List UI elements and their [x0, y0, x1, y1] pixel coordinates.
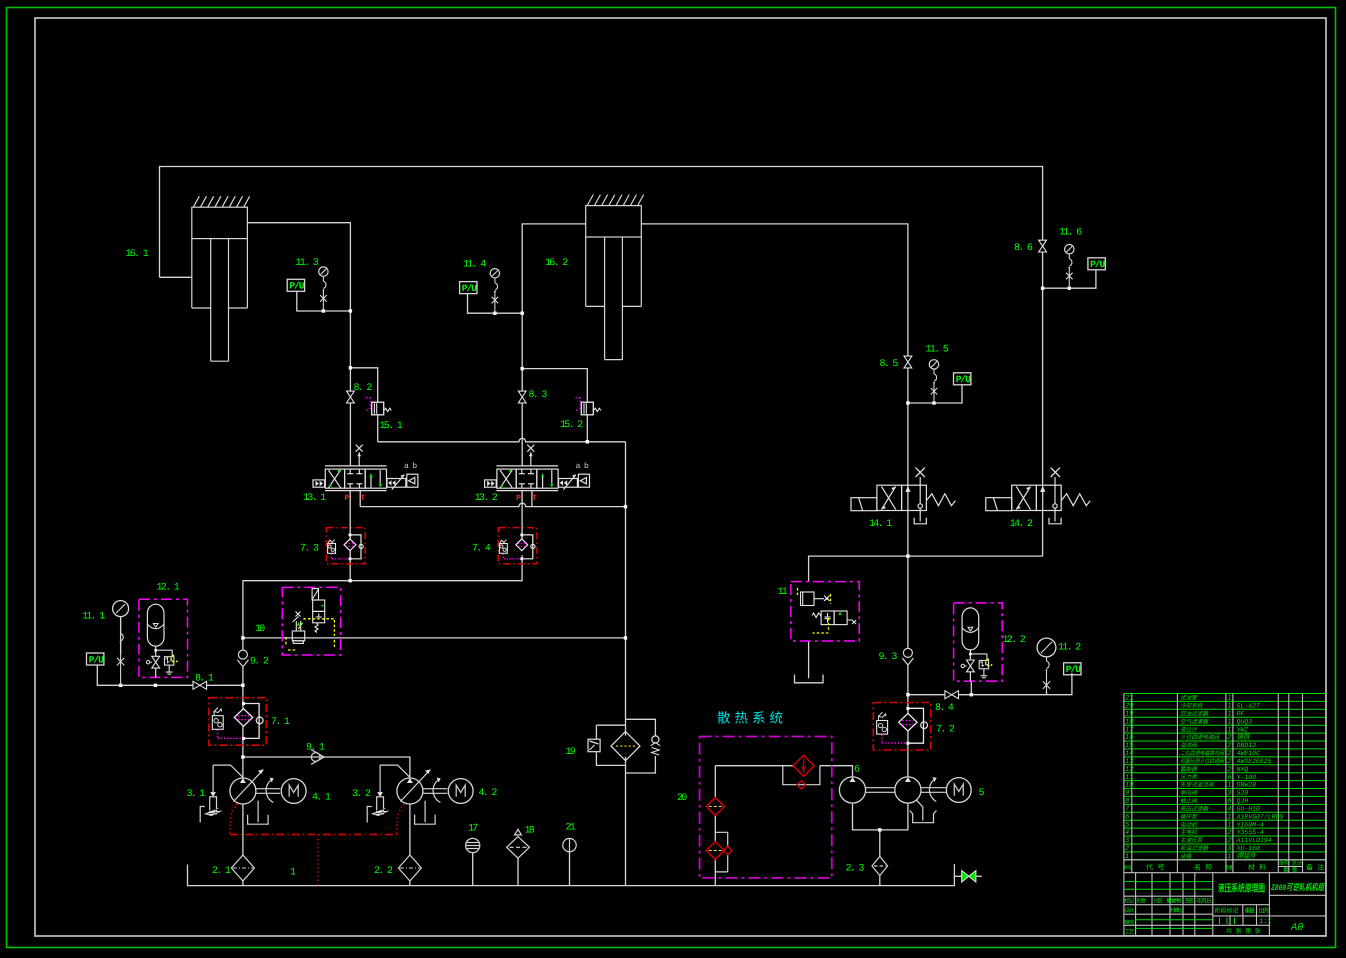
node: 7.3 bus — [349, 579, 352, 582]
wire: branch to relief 15.1 — [350, 368, 377, 402]
svg-text:分区: 分区 — [1153, 898, 1163, 905]
svg-text:签名: 签名 — [1185, 898, 1195, 905]
svg-text:二位四通电磁换向阀: 二位四通电磁换向阀 — [1180, 750, 1225, 757]
node: pump5 suction junction — [878, 828, 881, 831]
X plug marker above 14.2 — [1051, 468, 1060, 477]
solenoid valve 14.1 — [851, 477, 955, 530]
svg-text:8. 3: 8. 3 — [529, 390, 548, 401]
left branch filter diamonds — [706, 798, 724, 816]
svg-text:备 注: 备 注 — [1306, 864, 1324, 873]
drain red dotted lines — [230, 804, 404, 886]
wire: 7.3 down to bus y=580.7 — [349, 551, 351, 581]
svg-text:21: 21 — [1125, 695, 1133, 703]
wire: gauge 11.1 stem — [120, 616, 122, 654]
wire: block 11 tank symbol — [795, 675, 824, 683]
wire: 13.1 P port down to 7.3 — [349, 491, 351, 539]
svg-text:4. 1: 4. 1 — [312, 793, 331, 804]
wire: 13.2 T port — [531, 491, 533, 507]
cooling system box 20 — [700, 737, 832, 878]
wire: junction bus y=694.7 — [908, 694, 945, 696]
filter 7.1 — [209, 698, 266, 746]
svg-text:Z800可逆轧机机组: Z800可逆轧机机组 — [1270, 882, 1325, 893]
svg-text:21: 21 — [566, 823, 576, 834]
svg-text:吸油过滤器: 吸油过滤器 — [1180, 845, 1209, 852]
svg-text:SL-42T: SL-42T — [1237, 703, 1262, 710]
svg-text:14. 2: 14. 2 — [1010, 519, 1033, 530]
svg-text:13. 2: 13. 2 — [475, 493, 498, 504]
svg-text:序号: 序号 — [1124, 865, 1132, 872]
svg-text:2: 2 — [1227, 766, 1231, 774]
accumulator 12.1 — [139, 599, 188, 677]
svg-text:1: 1 — [290, 868, 296, 879]
wire: tank drain stub with green valve — [954, 875, 961, 877]
wire: into cyl 16.1 cap left — [160, 276, 192, 278]
svg-text:1:1: 1:1 — [1259, 918, 1272, 926]
pump group 3.1 / motor 4.1 — [200, 765, 306, 824]
svg-text:重 量: 重 量 — [1283, 867, 1298, 874]
BOM header text — [1124, 860, 1324, 874]
wire: T bus y=506.6 with hop — [360, 503, 625, 506]
svg-text:标准化: 标准化 — [1171, 907, 1183, 914]
filter 7.2 — [873, 703, 930, 751]
wire: 9.3 to junction y=694.7 — [907, 665, 909, 713]
svg-text:1: 1 — [1227, 711, 1231, 719]
svg-text:P: P — [345, 494, 350, 503]
svg-text:6: 6 — [854, 765, 860, 776]
svg-text:Y-100: Y-100 — [1237, 774, 1257, 781]
svg-text:6: 6 — [1125, 813, 1129, 821]
wire: pump bus y=757 — [243, 757, 410, 778]
tank drain valve (green) — [962, 871, 976, 883]
wire: filter 19 loop — [626, 719, 656, 736]
svg-text:1: 1 — [1125, 853, 1129, 861]
wire: bus y=580.7 — [243, 555, 522, 638]
svg-text:代 号: 代 号 — [1146, 864, 1164, 873]
wire: gauge 11.4 branch — [468, 294, 523, 314]
svg-text:NXQ: NXQ — [1237, 766, 1249, 773]
svg-text:QJH: QJH — [1237, 798, 1249, 805]
gauge 11.1 — [113, 601, 129, 686]
wire: 7.2 down to pump 5 — [907, 731, 909, 777]
node: accumulator bus — [119, 684, 122, 687]
svg-text:12. 1: 12. 1 — [157, 583, 180, 594]
svg-text:9. 1: 9. 1 — [306, 743, 325, 754]
svg-text:18: 18 — [525, 826, 535, 837]
svg-text:10: 10 — [1125, 782, 1133, 790]
svg-text:溢流阀: 溢流阀 — [1180, 742, 1198, 749]
pump group 3.2 / motor 4.2 — [367, 765, 473, 824]
wire: cyl 16.2 left to drop x=522.2 — [522, 224, 586, 391]
svg-text:11. 4: 11. 4 — [463, 260, 486, 271]
BOM item rows text — [1125, 695, 1283, 861]
svg-text:数量: 数量 — [1226, 865, 1233, 872]
svg-text:Y160M-4: Y160M-4 — [1237, 821, 1264, 828]
svg-text:1: 1 — [1227, 821, 1231, 829]
svg-text:14. 1: 14. 1 — [869, 519, 892, 530]
svg-text:年,月,日: 年,月,日 — [1197, 898, 1212, 905]
wire: 15.2 to line y=441.8 — [586, 415, 588, 442]
svg-text:T: T — [360, 494, 365, 503]
gauge 11.5 — [929, 360, 938, 369]
svg-text:S20: S20 — [1237, 790, 1249, 797]
svg-text:单向阀: 单向阀 — [1180, 790, 1198, 797]
node: pilot bus — [624, 636, 627, 639]
shutoff valve 8.1 — [193, 681, 207, 689]
wire: tank outline — [188, 864, 955, 886]
check valve 9.2 — [237, 650, 248, 667]
svg-text:液位计: 液位计 — [1180, 726, 1198, 733]
node: 15.2 branch — [521, 367, 524, 370]
svg-text:2: 2 — [1227, 742, 1231, 750]
svg-text:空气滤清器: 空气滤清器 — [1180, 718, 1209, 725]
svg-text:17: 17 — [1125, 726, 1134, 734]
solenoid valve 14.2 — [986, 477, 1090, 530]
svg-text:滤油管: 滤油管 — [1180, 695, 1198, 702]
wire: pump 3.2 suction to 2.2 — [409, 804, 411, 855]
svg-text:12: 12 — [1125, 766, 1133, 774]
svg-text:2. 1: 2. 1 — [212, 866, 231, 877]
directional valve 13.2 — [475, 445, 590, 504]
X plug marker above 14.1 — [916, 468, 925, 477]
BOM column lines (gray) — [1124, 694, 1326, 873]
wire: 13.1 T port to T bus — [359, 491, 361, 507]
svg-text:19: 19 — [1125, 711, 1133, 719]
svg-text:材 料: 材 料 — [1248, 864, 1266, 873]
svg-text:A1RVS07/LRDS: A1RVS07/LRDS — [1236, 813, 1284, 820]
svg-text:16. 1: 16. 1 — [126, 249, 149, 260]
svg-text:1: 1 — [1227, 695, 1231, 703]
wire: 15.1 to long line y=441.8 — [377, 415, 379, 442]
svg-text:15: 15 — [1125, 742, 1134, 750]
wire: block 11 to tank symbol — [808, 641, 810, 678]
svg-text:T: T — [532, 494, 537, 503]
filter 7.4 — [498, 528, 537, 564]
wire: pilot bus y=637.9 — [243, 637, 626, 639]
svg-text:11: 11 — [1125, 774, 1133, 782]
circulation pump 6 — [839, 777, 894, 803]
directional valve 13.1 — [303, 445, 418, 504]
node: 11.4 junction — [493, 312, 496, 315]
svg-text:先导式溢流阀: 先导式溢流阀 — [1180, 782, 1215, 789]
svg-text:10: 10 — [255, 624, 265, 635]
svg-text:1: 1 — [1227, 782, 1231, 790]
svg-text:11. 5: 11. 5 — [926, 345, 949, 356]
wire: gauge 11.6 branch — [1043, 287, 1070, 289]
shutoff valve 8.3 — [518, 391, 526, 403]
svg-text:油箱: 油箱 — [1180, 853, 1193, 860]
node: bus 556 junction — [906, 554, 909, 557]
svg-text:8. 5: 8. 5 — [880, 359, 899, 370]
wire: pump6/pump5 bottom loop — [853, 803, 908, 830]
wire: 8.2 lower to valve 13.1 — [349, 403, 351, 466]
svg-text:20: 20 — [1125, 703, 1133, 711]
wire: 8.5 down through 14.1 to 9.3 — [907, 368, 909, 485]
svg-text:1: 1 — [1227, 813, 1231, 821]
wire: P/U 11.2 stem — [1047, 673, 1072, 695]
svg-text:4: 4 — [1125, 829, 1129, 837]
svg-text:XU-160: XU-160 — [1236, 845, 1261, 852]
BOM header row lines — [1124, 860, 1326, 873]
svg-text:6: 6 — [1227, 798, 1231, 806]
wire: branch to relief 15.2 — [522, 369, 587, 403]
wire: 11.2 star branch — [1046, 692, 1048, 695]
svg-text:1: 1 — [1227, 726, 1231, 734]
node: T bus end — [624, 505, 627, 508]
BOM row lines (green) — [1124, 694, 1326, 860]
svg-text:电动机: 电动机 — [1180, 821, 1197, 828]
wire: cyl 16.1 right to main drop x=350.4 — [247, 223, 350, 392]
wire: bus y=556.1 to block 11 — [809, 556, 1043, 582]
shutoff valve 8.2 — [347, 391, 355, 403]
svg-text:2: 2 — [1227, 734, 1231, 742]
svg-text:3: 3 — [1227, 845, 1231, 853]
svg-text:RF: RF — [1237, 711, 1245, 718]
svg-text:9. 3: 9. 3 — [879, 652, 898, 663]
svg-text:伺服比例三位四通阀: 伺服比例三位四通阀 — [1180, 758, 1225, 765]
svg-text:4: 4 — [1227, 806, 1231, 814]
gauge 11.3 — [319, 267, 328, 276]
svg-text:2: 2 — [1227, 837, 1231, 845]
node: 11.5 junction — [906, 401, 909, 404]
svg-text:A0: A0 — [1290, 922, 1304, 934]
svg-text:QUQ3: QUQ3 — [1237, 718, 1253, 725]
relief valve 15.1 — [366, 397, 391, 414]
gauge 11.6 — [1065, 245, 1074, 254]
main pump 5 — [895, 777, 971, 823]
svg-text:比例: 比例 — [1258, 907, 1269, 915]
svg-text:P: P — [516, 494, 521, 503]
node: 15.1 branch — [349, 366, 352, 369]
wire: item 17 stem — [472, 853, 474, 886]
svg-text:8. 1: 8. 1 — [195, 674, 214, 685]
svg-text:1: 1 — [1227, 703, 1231, 711]
svg-text:高压过滤器: 高压过滤器 — [1180, 806, 1209, 813]
accumulator 12.2 — [954, 603, 1003, 681]
svg-text:5: 5 — [979, 788, 985, 799]
svg-text:17: 17 — [468, 824, 478, 835]
wire: 2.3 stem — [879, 830, 881, 857]
wire: 8.3 to valve 13.2 — [521, 403, 523, 466]
svg-text:9: 9 — [1125, 790, 1129, 798]
svg-text:3. 1: 3. 1 — [187, 789, 206, 800]
bypass check diamond — [797, 781, 805, 789]
svg-text:20: 20 — [677, 793, 687, 804]
title block lower section — [1124, 873, 1326, 936]
svg-text:3: 3 — [1125, 837, 1129, 845]
svg-text:2: 2 — [1227, 750, 1231, 758]
svg-text:更改文件号: 更改文件号 — [1166, 898, 1182, 905]
check valve 9.1 — [311, 750, 324, 765]
svg-text:16: 16 — [1125, 734, 1133, 742]
gauge 11.2 — [1037, 638, 1056, 695]
svg-text:18: 18 — [1125, 718, 1133, 726]
svg-text:审核: 审核 — [1124, 919, 1134, 926]
svg-text:7. 4: 7. 4 — [472, 544, 491, 555]
svg-text:回油过滤器: 回油过滤器 — [1180, 711, 1209, 718]
svg-text:7. 1: 7. 1 — [271, 717, 290, 728]
cooler bypass loop — [783, 766, 820, 785]
gauge 11.4 — [490, 269, 499, 278]
svg-text:7. 3: 7. 3 — [300, 544, 319, 555]
cooler diamond top — [793, 755, 814, 776]
svg-text:液压系统原理图: 液压系统原理图 — [1218, 883, 1265, 896]
svg-text:DBW28: DBW28 — [1237, 782, 1257, 789]
wire: top bus y=166.5 — [160, 167, 1043, 278]
svg-text:截止阀: 截止阀 — [1180, 798, 1198, 805]
cylinder 16.1 — [192, 196, 250, 361]
svg-text:设计: 设计 — [1124, 907, 1134, 914]
relief valve 15.2 — [576, 397, 601, 414]
check valve 9.3 — [902, 648, 913, 665]
svg-text:冷却系统: 冷却系统 — [1180, 703, 1204, 710]
wire: x=242.9 down to pump 3.1 — [242, 638, 244, 650]
svg-text:1: 1 — [1227, 853, 1231, 861]
node: pump bus — [241, 755, 244, 758]
node: 11.6 junction — [1041, 287, 1044, 290]
wire: cooler left branch down to tank — [714, 766, 716, 798]
svg-text:主液压泵: 主液压泵 — [1180, 837, 1204, 844]
wire: item 21 stem — [569, 852, 571, 886]
svg-text:8. 6: 8. 6 — [1014, 243, 1033, 254]
air breather 18 — [507, 829, 530, 858]
svg-text:a b: a b — [404, 462, 417, 471]
svg-text:处数: 处数 — [1136, 898, 1146, 905]
svg-text:2: 2 — [1227, 829, 1231, 837]
pilot valve block 11 — [778, 582, 860, 641]
svg-text:6: 6 — [1227, 774, 1231, 782]
svg-text:重量: 重量 — [1245, 908, 1256, 915]
svg-text:标记: 标记 — [1124, 898, 1134, 905]
pilot valve block 10 — [255, 587, 341, 655]
shutoff valve 8.4 — [945, 691, 959, 699]
svg-text:3. 2: 3. 2 — [352, 789, 371, 800]
svg-text:8: 8 — [1125, 798, 1129, 806]
svg-text:YWZ: YWZ — [1237, 726, 1250, 733]
svg-text:GU-H10: GU-H10 — [1237, 806, 1261, 813]
wire: 12.2 stem — [970, 680, 972, 694]
svg-text:阶段标记: 阶段标记 — [1215, 907, 1239, 915]
temp gauge 21 — [563, 838, 576, 851]
svg-text:4WSE2EE25: 4WSE2EE25 — [1237, 758, 1272, 765]
svg-text:工艺: 工艺 — [1124, 929, 1134, 936]
svg-text:13. 1: 13. 1 — [303, 493, 326, 504]
svg-text:11. 1: 11. 1 — [82, 612, 105, 623]
svg-text:Y355S-4: Y355S-4 — [1237, 829, 1264, 836]
svg-text:铸铁: 铸铁 — [1237, 733, 1252, 741]
svg-text:15. 1: 15. 1 — [380, 421, 403, 432]
svg-text:循环泵: 循环泵 — [1180, 813, 1198, 820]
svg-text:A11VLO194: A11VLO194 — [1236, 837, 1272, 844]
svg-text:散热系统: 散热系统 — [717, 711, 787, 728]
svg-text:11. 2: 11. 2 — [1058, 643, 1081, 654]
svg-text:11. 6: 11. 6 — [1059, 228, 1082, 239]
svg-text:11. 3: 11. 3 — [296, 258, 319, 269]
return filter 19 — [566, 732, 661, 761]
wire: long line y=441.8 with hop at x=522.3 — [378, 438, 626, 441]
svg-text:15. 2: 15. 2 — [560, 420, 583, 431]
svg-text:8. 2: 8. 2 — [354, 383, 373, 394]
wire: gauge 11.5 branch — [908, 402, 934, 404]
svg-text:13: 13 — [1125, 758, 1133, 766]
wire: right drop x=625.5 down to filter 19 — [625, 442, 627, 720]
wire: cooler top from left branch — [715, 765, 793, 767]
svg-text:3: 3 — [1227, 790, 1231, 798]
svg-text:三位四通电磁阀: 三位四通电磁阀 — [1180, 734, 1221, 741]
svg-text:8. 4: 8. 4 — [935, 703, 954, 714]
svg-text:19: 19 — [566, 747, 576, 758]
svg-text:主电机: 主电机 — [1180, 829, 1197, 836]
svg-text:压力表: 压力表 — [1180, 774, 1198, 781]
svg-text:16. 2: 16. 2 — [545, 258, 568, 269]
svg-text:2: 2 — [1227, 758, 1231, 766]
svg-text:4. 2: 4. 2 — [479, 788, 498, 799]
suction filter 2.1 — [231, 855, 254, 881]
svg-text:14: 14 — [1125, 750, 1133, 758]
wire: item 18 stem — [517, 858, 519, 885]
node: bus 694.7 junctions — [906, 693, 909, 696]
svg-text:9. 2: 9. 2 — [250, 657, 269, 668]
svg-text:1: 1 — [1227, 718, 1231, 726]
wire: gauge 11.3 branch — [297, 292, 351, 311]
suction filter 2.2 — [398, 855, 421, 881]
shutoff valve 8.5 — [904, 356, 912, 368]
wire: 13.2 P port down to 7.4 — [521, 491, 523, 539]
node: 11.3 junction — [322, 309, 325, 312]
wire: cooler out to pump 6 — [820, 766, 853, 777]
svg-text:2. 2: 2. 2 — [374, 866, 393, 877]
cylinder 16.2 — [586, 195, 644, 360]
svg-text:2. 3: 2. 3 — [846, 864, 865, 875]
svg-text:11: 11 — [778, 587, 788, 598]
svg-text:DBD13: DBD13 — [1237, 742, 1257, 749]
svg-text:2: 2 — [1125, 845, 1129, 853]
suction filter 2.3 — [872, 856, 888, 875]
svg-text:共 张 第 张: 共 张 第 张 — [1226, 927, 1261, 935]
level gauge 17 — [466, 838, 480, 852]
svg-text:12. 2: 12. 2 — [1003, 635, 1026, 646]
svg-text:蓄能器: 蓄能器 — [1180, 766, 1198, 773]
filter 7.3 — [326, 528, 365, 564]
svg-text:a b: a b — [576, 462, 589, 471]
wire: cyl 16.2 right to drop x=907.9 — [641, 224, 908, 356]
svg-text:焊接件: 焊接件 — [1237, 852, 1257, 860]
svg-text:7. 2: 7. 2 — [936, 725, 955, 736]
wire: accumulator bus y=685.3 — [97, 665, 193, 685]
shutoff valve 8.6 — [1039, 240, 1047, 252]
wire: pump 3.1 suction to 2.1 — [242, 804, 244, 855]
svg-text:名 称: 名 称 — [1194, 864, 1212, 873]
svg-text:4WE10C: 4WE10C — [1237, 750, 1261, 757]
wire: 14.2 drop x=1042.6 — [1042, 252, 1044, 485]
